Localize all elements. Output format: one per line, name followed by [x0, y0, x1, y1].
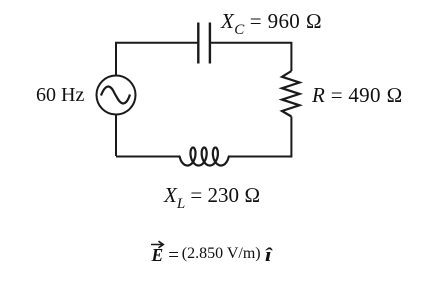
label E-field: i-hat [265, 246, 271, 265]
label E-field: E bold italic [152, 247, 164, 265]
label XC = 960 ohm [221, 11, 322, 41]
capacitor C right plate [209, 23, 211, 64]
E-field vector arrow over E [151, 241, 163, 248]
wire top-right from capacitor to resistor [210, 43, 292, 71]
AC source sine wave [101, 87, 130, 104]
label 60 Hz [36, 85, 84, 105]
label XL = 230 ohm [164, 185, 260, 215]
capacitor C left plate [197, 23, 199, 64]
label E-field: equals sign [168, 246, 179, 265]
resistor R zigzag [282, 71, 300, 117]
wire right-bottom from resistor to inductor [229, 117, 292, 157]
wire bottom-left from inductor to source [116, 156, 180, 158]
wire top-left from source to capacitor [116, 43, 198, 156]
label R = 490 ohm [312, 85, 403, 106]
AC source circle [97, 76, 136, 115]
inductor L coil [180, 148, 229, 166]
label E-field: (2.850 V/m) [182, 246, 261, 262]
